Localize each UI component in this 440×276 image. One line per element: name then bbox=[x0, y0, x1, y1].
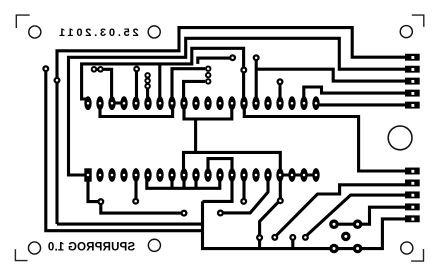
pad U2 row2 pin 13 bbox=[228, 168, 235, 182]
wire p10'-p12' bridge bbox=[208, 159, 232, 170]
pad U2 row2 pin 3 bbox=[108, 168, 115, 182]
wire p8-p12 bottom band bbox=[184, 106, 232, 119]
pad U1 row1 pin 16 bbox=[264, 96, 271, 110]
pad B bbox=[253, 54, 260, 61]
wire p7 riser to jumper S2 top bbox=[172, 69, 205, 101]
connector J1 pad 5 bbox=[405, 102, 420, 109]
wire p2-p3 bridge bbox=[112, 101, 124, 104]
pot R1 pad 1 bbox=[329, 219, 339, 229]
pad U2 row2 pin 16 bbox=[264, 168, 271, 182]
wire p15' diagonal to pad P1 bbox=[221, 178, 268, 213]
pad E3 bbox=[181, 210, 188, 217]
crop mark top-left bbox=[16, 15, 29, 28]
pot R1 pad 2 bbox=[353, 219, 363, 229]
wire pad stub near bus bbox=[291, 238, 294, 249]
wire band nub p9' bbox=[194, 181, 197, 188]
wire band nub p7' bbox=[170, 181, 173, 188]
via V3 bbox=[240, 67, 247, 74]
wire p16 top pad stem bbox=[278, 83, 281, 99]
pad U2 row2 pin 8 bbox=[168, 168, 175, 182]
mounting hole H1 top-left bbox=[29, 26, 41, 38]
pad U1 row1 pin 11 bbox=[204, 96, 211, 110]
pad U1 row1 pin 13 bbox=[228, 96, 235, 110]
jumper S2 pad c bbox=[205, 78, 211, 84]
jumper S2 pad b bbox=[205, 72, 211, 78]
pad U1 row1 pin 7 bbox=[156, 96, 163, 110]
connector J2 pad 3 bbox=[405, 191, 420, 198]
via V2 bbox=[54, 77, 61, 84]
wire diagonal to J2 pin2 bbox=[276, 185, 406, 236]
pad F3 bbox=[302, 234, 309, 241]
wire twin pads to p2 bbox=[94, 69, 112, 99]
pad U1 row1 pin 19 bbox=[300, 96, 307, 110]
pad D2 bbox=[277, 78, 284, 85]
wire net2 pad chain down bbox=[88, 178, 184, 213]
svg-text:25.03.2011: 25.03.2011 bbox=[56, 27, 138, 39]
wire p18 to J1 pin4 bbox=[304, 87, 406, 99]
pad U2 row2 pin 18 bbox=[288, 168, 295, 182]
pad U2 row2 pin 4 bbox=[120, 168, 127, 182]
pot R1 pad 5 bbox=[353, 244, 363, 254]
via V1 bbox=[42, 65, 49, 72]
pad U1 row1 pin 15 bbox=[252, 96, 259, 110]
pad U1 row1 pin 6 bbox=[144, 96, 151, 110]
IC socket row 2 pads bbox=[84, 168, 319, 182]
pad U2 row2 pin 17 bbox=[276, 168, 283, 182]
svg-text:SPURPROG 1.0: SPURPROG 1.0 bbox=[48, 242, 135, 254]
crop mark top-right bbox=[412, 15, 424, 27]
pad U1 row1 pin 8 bbox=[168, 96, 175, 110]
pad U2 row2 pin 6 bbox=[144, 168, 151, 182]
wire p8 riser to jumper S2 bottom bbox=[184, 81, 205, 101]
jumper S1 pad a bbox=[144, 72, 150, 78]
pad U1 row1 pin 20 bbox=[312, 96, 319, 110]
pad U2 row2 pin 12 bbox=[216, 168, 223, 182]
pad F1 bbox=[271, 234, 278, 241]
wire ground drop to p6 bbox=[158, 64, 161, 99]
wire p19 to J1 pin5 bbox=[316, 103, 406, 106]
mounting hole H3 top-right bbox=[400, 26, 412, 38]
connector J1 pads bbox=[405, 54, 420, 109]
pad U2 row2 pin 15 bbox=[252, 168, 259, 182]
pad U1 row1 pin 4 bbox=[120, 96, 127, 110]
pad U1 row1 pin 12 bbox=[216, 96, 223, 110]
jumper S1 pad b bbox=[144, 78, 150, 84]
pad A bbox=[229, 54, 236, 61]
wire left vertical 1 to ground star bbox=[46, 70, 203, 231]
wire p13' stem bbox=[242, 178, 245, 199]
pad U2 row2 pin 10 bbox=[192, 168, 199, 182]
pad U2 row2 pin 14 bbox=[240, 168, 247, 182]
wire net2 left riser to J1 pin2 bbox=[69, 38, 407, 176]
pad U1 row1 pin 1 bbox=[84, 96, 91, 110]
pot R1 pad 4 bbox=[329, 244, 339, 254]
wire p14 riser and branch to J1 pin3 bbox=[256, 59, 406, 99]
mounting hole H2 top-middle bbox=[148, 26, 160, 38]
wire spur to pad A bbox=[198, 58, 233, 64]
connector J2 pads bbox=[405, 168, 420, 223]
pad U2 row2 pin 11 bbox=[204, 168, 211, 182]
via V4 bbox=[256, 234, 263, 241]
pot R1 pad 3 bbox=[341, 232, 351, 242]
pad T1a bbox=[91, 66, 98, 73]
wire p13 band to J2 pin1 bbox=[244, 104, 406, 171]
pad U2 row2 pin 7 bbox=[156, 168, 163, 182]
pad U2 row2 pin 9 bbox=[180, 168, 187, 182]
wire net2 row2 square pad link bbox=[69, 173, 87, 176]
crop mark bottom-right bbox=[411, 249, 423, 261]
pad U1 row1 pin 2 bbox=[96, 96, 103, 110]
wire row2 ground band bbox=[147, 180, 220, 189]
wire diagonal to J2 pin3 bbox=[305, 195, 406, 237]
pad U1 row1 pin 18 bbox=[288, 96, 295, 110]
pad P1 bbox=[217, 210, 224, 217]
wire band nub p8' bbox=[182, 181, 185, 188]
jumper S1 pad c bbox=[144, 83, 150, 89]
pad E1 bbox=[97, 198, 104, 205]
pad U2 row2 pin 1 bbox=[84, 168, 91, 181]
connector J2 pad 1 bbox=[405, 168, 420, 175]
wire p4' stem bbox=[134, 178, 137, 199]
IC socket row 1 pads bbox=[84, 96, 319, 110]
large hole TO-220 bbox=[388, 126, 412, 150]
connector J2 pad 2 bbox=[405, 180, 420, 187]
pad U1 row1 pin 5 bbox=[132, 96, 139, 110]
wire p5 riser to jumper S1 bbox=[146, 86, 149, 99]
connector J1 pad 2 bbox=[405, 66, 420, 73]
wire net1 to connector J1 pin1 bbox=[57, 28, 406, 225]
wire p16' through P3 diagonal to bus bbox=[260, 178, 281, 249]
wire p4 riser bbox=[135, 71, 138, 99]
mounting hole H6 bottom-right bbox=[401, 242, 413, 254]
jumper S2 pad a bbox=[205, 66, 211, 72]
pad U1 row1 pin 14 bbox=[240, 96, 247, 110]
wire ground net p0 riser bbox=[82, 48, 244, 99]
wire band stub down to inter-row net bbox=[194, 119, 197, 152]
pad P2 bbox=[240, 198, 247, 205]
wire upper ground stub bbox=[57, 223, 203, 226]
pad U1 row1 pin 3 bbox=[108, 96, 115, 110]
pad U2 row2 pin 19 bbox=[300, 168, 307, 182]
connector J1 pad 1 bbox=[405, 54, 420, 61]
wire cluster top bar to J2 pin4 bbox=[334, 207, 406, 224]
pad T1b bbox=[97, 66, 104, 73]
small round pads bbox=[42, 54, 362, 253]
pad U1 row1 pin 10 bbox=[192, 96, 199, 110]
pad U1 row1 pin 9 bbox=[180, 96, 187, 110]
wire bottom ground bus bbox=[203, 201, 407, 248]
pad U1 row1 pin 17 bbox=[276, 96, 283, 110]
pad E2 bbox=[132, 198, 139, 205]
wire p1 to p7 bottom bus bbox=[100, 104, 173, 117]
connector J2 pad 4 bbox=[405, 203, 420, 210]
mounting hole H5 bottom-middle bbox=[148, 239, 160, 251]
mounting hole H4 bottom-left bbox=[28, 242, 40, 254]
connector J1 pad 3 bbox=[405, 78, 420, 85]
connector J2 pad 5 bbox=[405, 215, 420, 222]
wire inter-row net p8'-p16' bbox=[184, 152, 281, 169]
pad U2 row2 pin 20 bbox=[312, 168, 319, 182]
pad U2 row2 pin 5 bbox=[132, 168, 139, 182]
pad U2 row2 pin 2 bbox=[96, 168, 103, 182]
crop mark bottom-left bbox=[15, 249, 27, 260]
connector J1 pad 4 bbox=[405, 90, 420, 97]
wire row2 connected bar p16'-p19' bbox=[280, 173, 316, 176]
wire p12' drop to ground star bbox=[203, 178, 233, 201]
pad D1 bbox=[133, 66, 140, 73]
pad F2 bbox=[289, 234, 296, 241]
pad P3 bbox=[277, 197, 284, 204]
